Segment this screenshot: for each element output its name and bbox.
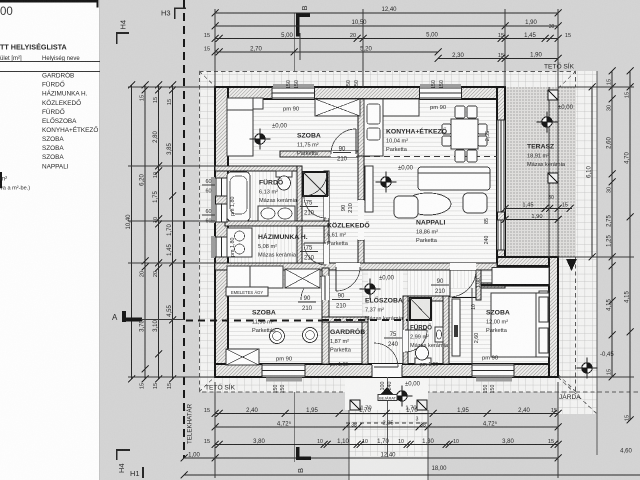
terrace internal dims <box>505 208 558 210</box>
top dims row1 12.40 <box>215 12 558 14</box>
top dims row2 <box>215 25 558 27</box>
coffee table nappali <box>405 193 451 215</box>
terrace open edge <box>548 87 550 257</box>
terrace dotted floor <box>505 87 576 257</box>
terrace column 2 <box>548 173 558 183</box>
kitchen counter <box>364 99 383 156</box>
washbasins furdo1 <box>258 206 295 221</box>
survey point nappali <box>381 177 391 187</box>
wall furdo1 top <box>215 166 302 171</box>
survey point szoba1 <box>255 134 265 144</box>
floor eloszoba tiles <box>368 268 403 364</box>
wardrobe szoba1 <box>315 99 360 116</box>
bottom dims row5 <box>184 474 640 476</box>
porch floor <box>345 371 428 410</box>
wc furdo2 <box>415 358 431 364</box>
scan noise overlay <box>0 0 1 1</box>
armchair nappali a <box>394 196 418 218</box>
door furdo1 <box>324 196 329 218</box>
door nappali to hall nook <box>450 263 476 270</box>
floor gardrob parquet <box>329 322 362 364</box>
wall exterior bottom <box>215 364 558 377</box>
left witness lines <box>128 86 215 88</box>
bottom dims row3 <box>215 444 558 446</box>
property line (TELEKHATAR) <box>183 0 185 458</box>
floor nappali parquet <box>364 156 497 263</box>
jarda diagonal <box>558 377 597 414</box>
shower furdo2 <box>410 298 431 320</box>
survey point terasz <box>542 117 552 127</box>
section line A dashed <box>322 319 408 321</box>
window hazimunka left <box>211 236 215 258</box>
survey point porch <box>397 391 407 401</box>
dining table <box>451 119 478 149</box>
window szoba3 bottom <box>476 378 512 382</box>
door szoba2 <box>322 276 329 300</box>
wc furdo1 <box>276 171 292 177</box>
window szoba2 bottom <box>266 378 302 382</box>
entrance axis line <box>387 377 389 457</box>
wall szoba2/gardrob vertical <box>322 268 329 364</box>
top witness lines <box>214 9 216 87</box>
porch column 2 <box>417 400 427 410</box>
wall gardrob top <box>322 317 368 322</box>
washbasin furdo2 <box>435 327 443 342</box>
wall exterior top <box>215 87 505 99</box>
terrace glass door right <box>497 120 505 212</box>
bed szoba1 <box>227 98 253 156</box>
wall furdo2/szoba3 vertical <box>443 296 449 364</box>
wall konyha/kozlekedo vertical <box>358 99 364 156</box>
wall exterior right upper <box>497 87 505 257</box>
interior vert line szoba3 <box>471 288 473 364</box>
right dim chain3 <box>629 71 631 420</box>
left dim 10.40 <box>131 85 133 379</box>
kozlekedo/nappali opening <box>358 200 364 240</box>
wall hall-nook / szoba3 vertical <box>476 270 481 300</box>
floor szoba3 parquet <box>449 288 549 364</box>
wall hazimunka bottom / szoba2 top <box>215 263 497 270</box>
floor kozlekedo parquet <box>329 157 364 263</box>
bottom dims row2 <box>215 426 558 428</box>
door szoba1 <box>331 151 356 157</box>
floor szoba1 parquet <box>228 99 358 166</box>
exterior paving grid around building <box>199 71 576 392</box>
section marker B bottom <box>296 447 300 460</box>
door hazimunka <box>324 243 329 264</box>
porch roof diagonals <box>349 373 388 410</box>
survey point jarda <box>582 363 592 373</box>
roof plane dashed outline <box>200 72 576 393</box>
sofa nappali <box>418 167 490 190</box>
bathtub furdo1 <box>227 172 250 221</box>
bottom witness lines <box>214 382 216 478</box>
window szoba1 top <box>273 84 314 88</box>
bunk bed szoba2 <box>227 266 283 288</box>
walkway to entrance <box>349 392 428 456</box>
shower furdo1 <box>303 172 327 196</box>
kitchen/nappali dashed boundary <box>364 156 497 158</box>
washer hazimunka <box>227 228 252 257</box>
wall szoba1/kozlekedo <box>280 151 364 157</box>
survey point eloszoba <box>365 284 375 294</box>
floor furdo1 tiles <box>228 171 297 221</box>
window konyha top <box>420 84 461 88</box>
wall kozlekedo/nappali vertical <box>358 156 364 200</box>
chairs <box>455 106 465 118</box>
stool szoba2 a <box>270 329 285 344</box>
panel top frame bar <box>0 0 97 3</box>
floor hall nook tiles <box>408 270 476 298</box>
floor furdo2 tiles <box>408 296 443 364</box>
sidewalk edge lines <box>348 410 350 480</box>
tv bench nappali <box>365 166 373 212</box>
header rules <box>0 61 100 63</box>
double bed szoba3 <box>491 293 549 357</box>
left dim chain2 <box>144 85 146 379</box>
entrance arrow <box>381 387 393 394</box>
wall exterior right lower <box>549 257 558 377</box>
wall szoba3 top <box>481 283 505 288</box>
roof hip diagonals <box>199 71 365 231</box>
windows furdo1 left <box>211 177 215 223</box>
right dim chain2 <box>611 71 613 377</box>
bottom dims row1 <box>215 413 558 415</box>
door furdo2 <box>403 330 408 352</box>
floor hazimunka tiles <box>228 226 297 263</box>
left dim chain3 <box>158 85 160 379</box>
wall step terrace/szoba3 <box>497 257 558 266</box>
bottom dims row4 <box>184 457 558 459</box>
porch column 1 <box>350 400 360 410</box>
wall furdo1/kozlekedo vertical <box>297 166 302 285</box>
floor szoba2 parquet <box>228 268 322 364</box>
top dims row3 <box>215 38 558 40</box>
wall furdo1/hazimunka <box>225 221 329 226</box>
wall eloszoba/furdo2 vertical <box>403 296 408 364</box>
wall exterior left <box>215 87 228 377</box>
section marker H4 bottom <box>116 449 130 451</box>
top dims row4 <box>215 51 438 53</box>
wall gardrob/eloszoba vertical <box>362 322 368 364</box>
level step arrow <box>566 259 577 271</box>
right dim 6.10 <box>591 87 593 257</box>
wall furdo2 top <box>403 296 449 301</box>
stool szoba2 b <box>303 328 318 343</box>
closet szoba3 top <box>492 268 549 286</box>
left dim chain4 <box>172 85 174 379</box>
armchair nappali b <box>463 193 487 213</box>
terrace column 1 <box>548 90 558 100</box>
floor konyha parquet <box>364 99 497 156</box>
room list panel <box>0 0 100 480</box>
wardrobe szoba3 <box>452 299 460 356</box>
door eloszoba from kozlekedo <box>336 263 360 270</box>
right witness lines <box>558 86 634 88</box>
wall shower niche vertical <box>324 171 329 285</box>
wardrobe szoba2 top-right <box>285 269 320 288</box>
nook bottom edge <box>452 297 476 299</box>
entrance door <box>372 364 402 377</box>
wardrobe szoba2 <box>226 349 259 365</box>
